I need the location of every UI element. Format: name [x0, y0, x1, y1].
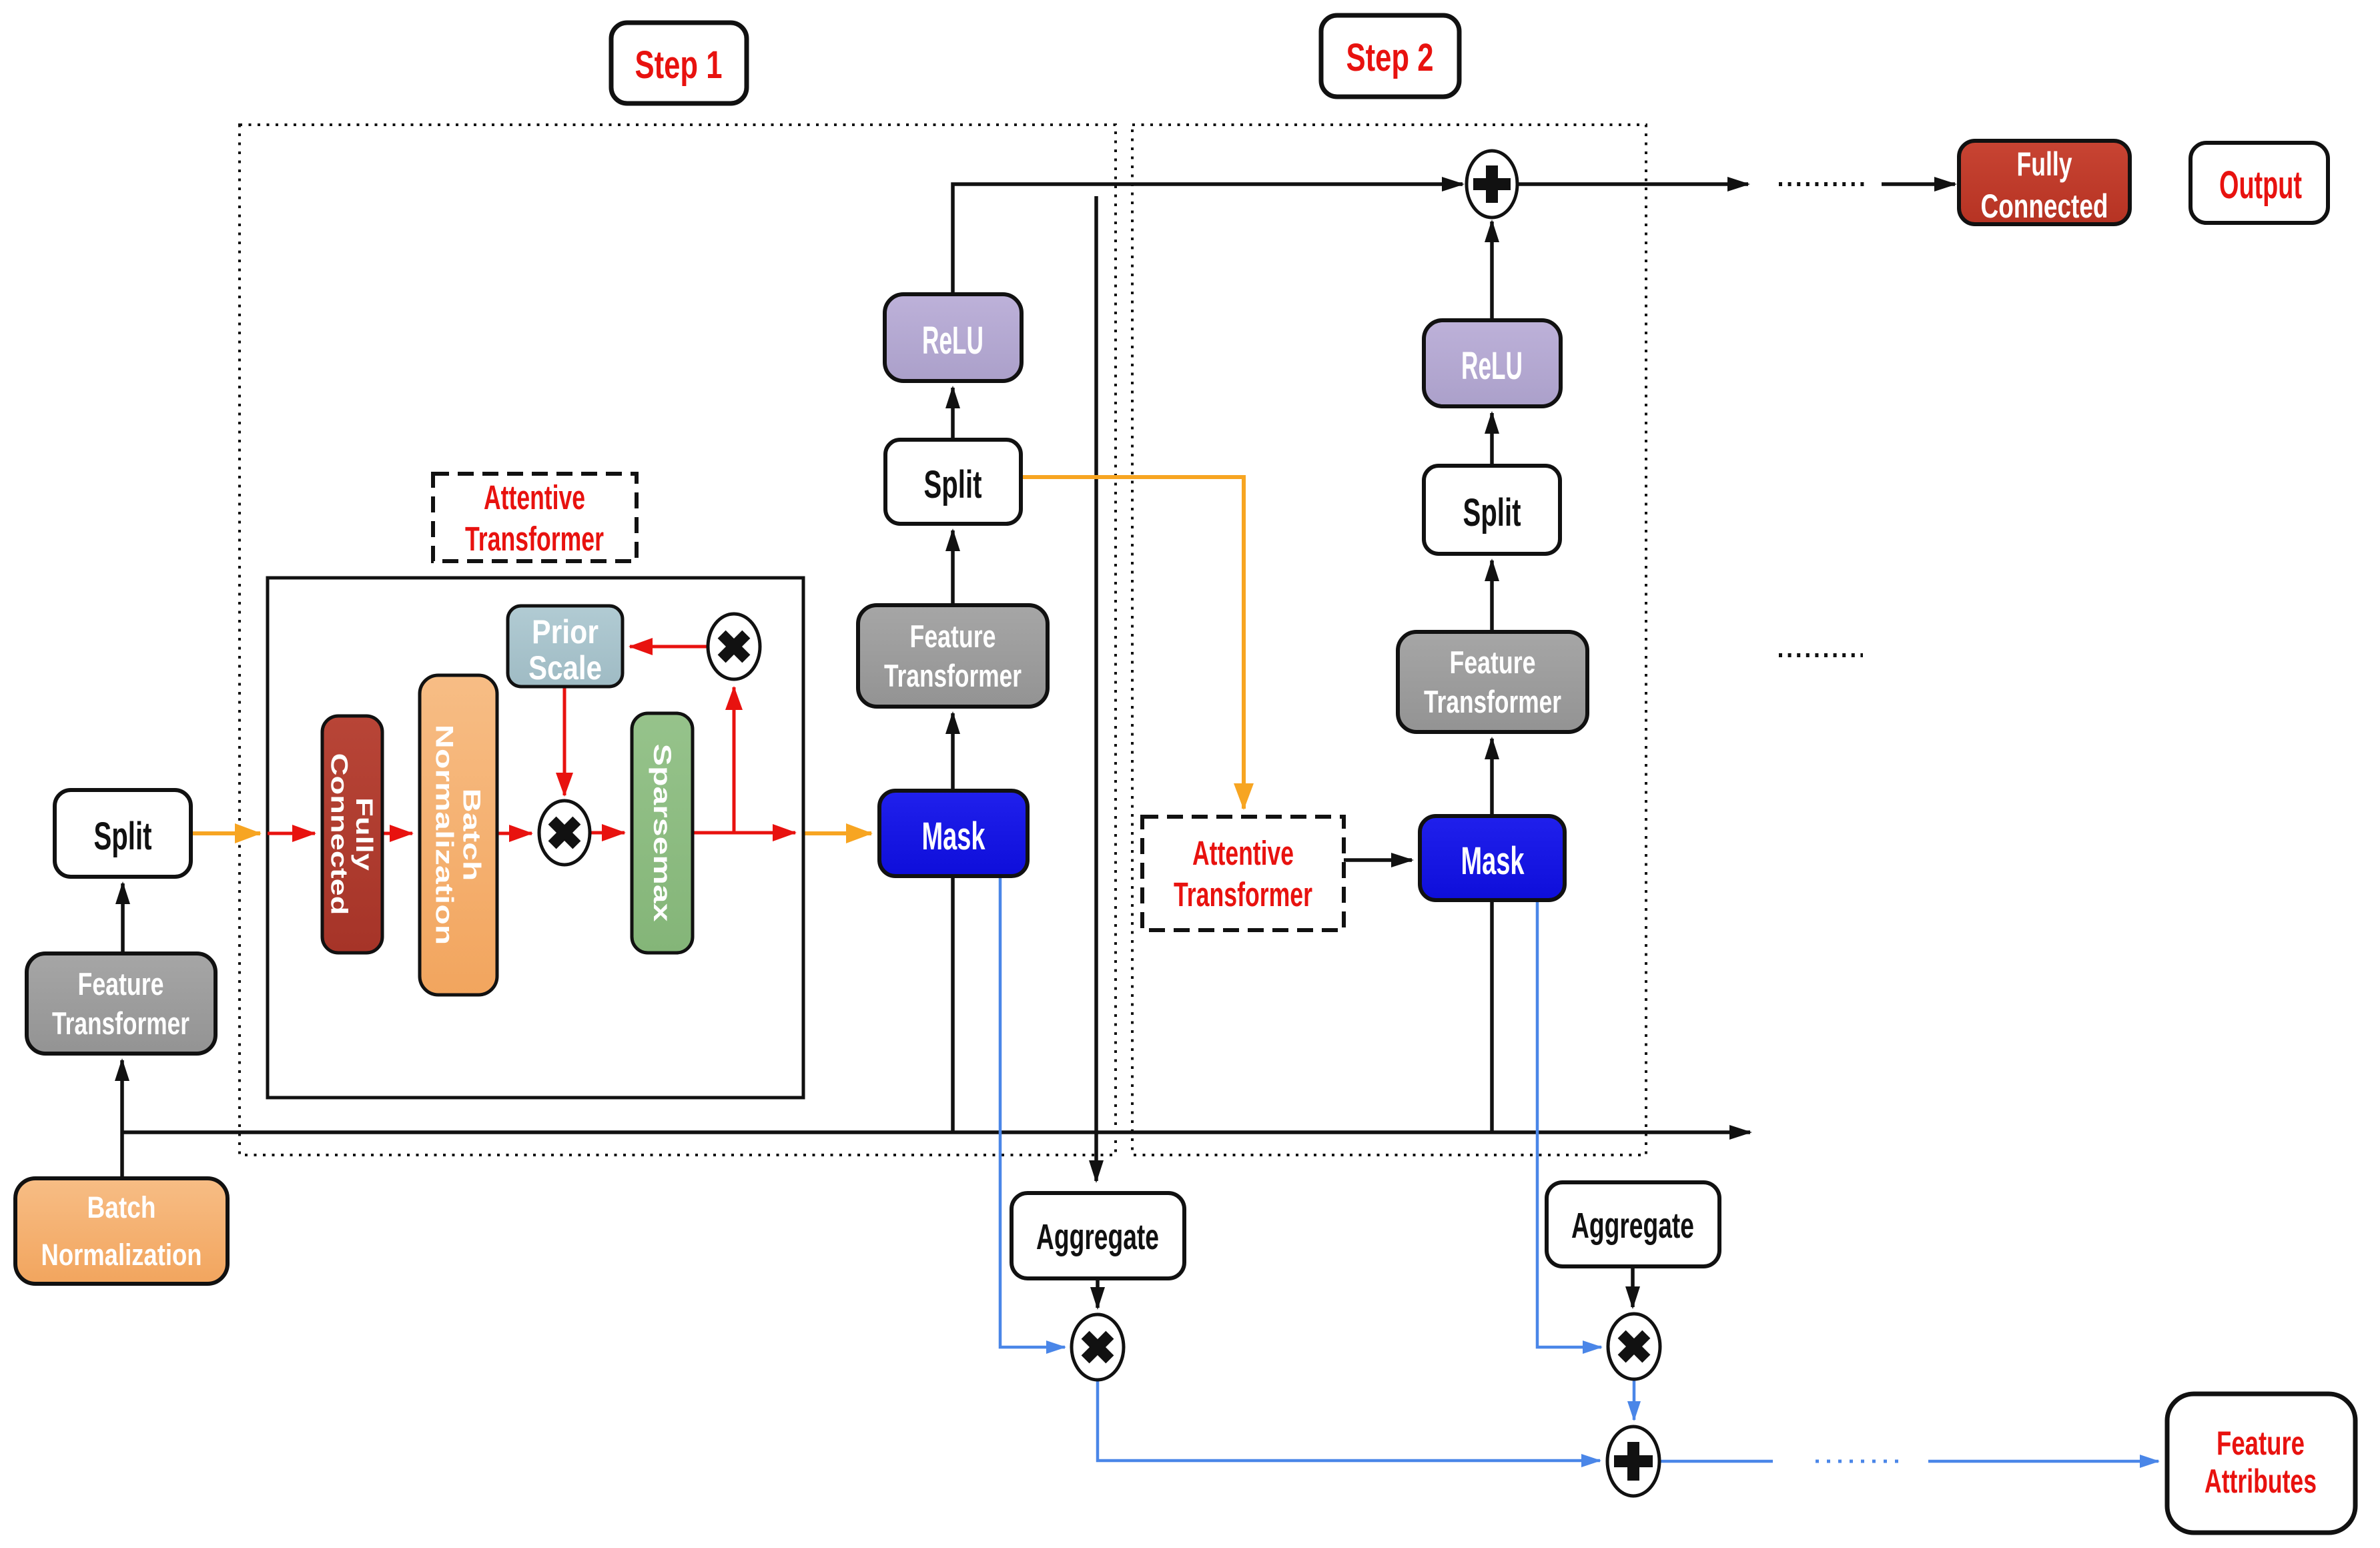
svg-text:Transformer: Transformer — [52, 1006, 189, 1041]
svg-text:Aggregate: Aggregate — [1571, 1206, 1694, 1246]
svg-text:Attributes: Attributes — [2205, 1463, 2317, 1500]
svg-text:Feature: Feature — [2217, 1425, 2305, 1462]
svg-text:Step 2: Step 2 — [1346, 36, 1434, 79]
svg-text:Prior: Prior — [532, 613, 599, 651]
svg-text:Aggregate: Aggregate — [1036, 1217, 1159, 1257]
svg-text:Batch: Batch — [87, 1190, 156, 1224]
svg-text:Step 1: Step 1 — [635, 43, 723, 87]
svg-text:Output: Output — [2219, 163, 2302, 207]
svg-text:Feature: Feature — [1450, 645, 1536, 680]
svg-text:Fully: Fully — [2017, 145, 2072, 183]
svg-text:Feature: Feature — [910, 619, 996, 654]
svg-text:ReLU: ReLU — [922, 319, 983, 362]
svg-text:Scale: Scale — [528, 649, 602, 687]
svg-text:Split: Split — [924, 463, 982, 506]
svg-text:Connected: Connected — [1981, 187, 2108, 225]
svg-text:Mask: Mask — [1461, 839, 1525, 883]
svg-text:Attentive: Attentive — [484, 478, 585, 516]
svg-text:Sparsemax: Sparsemax — [649, 744, 677, 922]
svg-text:ReLU: ReLU — [1461, 344, 1523, 388]
svg-text:Mask: Mask — [922, 815, 985, 858]
svg-text:Attentive: Attentive — [1192, 834, 1294, 872]
svg-text:Split: Split — [94, 815, 152, 858]
svg-text:Transformer: Transformer — [884, 658, 1022, 693]
svg-text:Transformer: Transformer — [1424, 684, 1561, 719]
svg-text:Transformer: Transformer — [1174, 875, 1312, 913]
svg-text:Normalization: Normalization — [430, 725, 458, 945]
svg-text:Connected: Connected — [326, 753, 353, 915]
svg-text:Transformer: Transformer — [465, 520, 604, 558]
svg-text:Split: Split — [1463, 491, 1521, 534]
svg-text:Feature: Feature — [78, 966, 164, 1002]
svg-text:Fully: Fully — [351, 797, 378, 871]
svg-text:Normalization: Normalization — [41, 1238, 202, 1272]
svg-text:Batch: Batch — [458, 789, 486, 881]
